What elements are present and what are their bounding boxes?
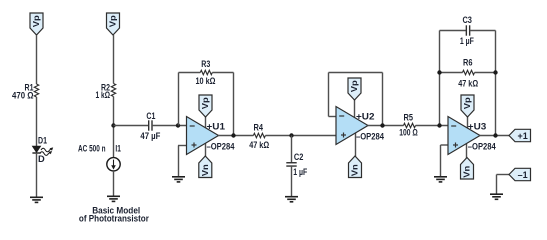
wire U1 noninverting input to ground [178, 145, 187, 147]
power flag Vp (U3) [461, 95, 474, 117]
svg-text:AC 500 n: AC 500 n [78, 144, 106, 154]
wire U3 output to +1 tag [480, 135, 510, 137]
op-amp U3 [448, 117, 480, 155]
svg-text:+U2: +U2 [356, 112, 375, 122]
svg-text:Vn: Vn [463, 166, 472, 178]
stub U1 Vp [205, 111, 207, 131]
svg-text:Vp: Vp [201, 97, 210, 109]
svg-text:D1: D1 [38, 136, 47, 146]
svg-text:47 kΩ: 47 kΩ [458, 78, 478, 88]
svg-text:I1: I1 [115, 144, 121, 154]
wire feedback up from U1 input node [178, 73, 180, 126]
wire C1 to U1 inverting input [152, 125, 187, 127]
wire feedback down to U1 output [233, 73, 235, 136]
svg-text:+U3: +U3 [468, 122, 487, 132]
wire bend down to ground (-1) [496, 175, 498, 195]
svg-text:1 µF: 1 µF [460, 36, 474, 46]
wire C3 right segment [470, 30, 496, 32]
power flag Vp (U1) [199, 95, 212, 117]
wire down to ground U3 [440, 145, 442, 177]
wire R6 left segment [440, 72, 463, 74]
wire U2 feedback into inverting input [329, 116, 337, 118]
junction R6 right [493, 70, 497, 74]
stub U2 Vp [354, 95, 356, 121]
junction U3 output/feedback [493, 133, 497, 137]
svg-text:1 kΩ: 1 kΩ [96, 90, 111, 100]
svg-text:Vn: Vn [201, 164, 210, 176]
svg-text:+1: +1 [517, 131, 527, 141]
resistor R2 [111, 84, 115, 97]
svg-text:R6: R6 [463, 58, 473, 68]
wire down to ground U1 [178, 146, 180, 177]
wire U1 output to R4 [218, 135, 253, 137]
resistor R6 [463, 70, 475, 74]
ground (-1 reference) [490, 194, 503, 199]
resistor R5 [404, 123, 416, 127]
svg-text:R4: R4 [254, 122, 264, 132]
wire U2 output to R5 [368, 125, 404, 127]
svg-text:C1: C1 [146, 111, 155, 121]
svg-text:+U1: +U1 [207, 122, 226, 132]
wire Vp to R2 [113, 35, 115, 84]
power flag Vp (column 2) [107, 13, 120, 35]
power flag Vp (column 1) [30, 13, 43, 35]
light arrows of D1 [40, 147, 53, 155]
wire U2 feedback left down [328, 73, 330, 117]
svg-text:Vn: Vn [351, 164, 360, 176]
wire U2 feedback up [382, 73, 384, 126]
output port -1 [509, 168, 531, 180]
svg-text:10 kΩ: 10 kΩ [196, 76, 216, 86]
wire U3 feedback right vertical [495, 31, 497, 136]
diode D1 [32, 146, 40, 153]
junction U2 output/feedback [380, 123, 384, 127]
svg-text:–OP284: –OP284 [207, 142, 236, 152]
wire D1 to ground [36, 153, 38, 198]
ground (C2) [285, 197, 298, 202]
svg-text:of Phototransistor: of Phototransistor [79, 214, 150, 224]
current source I1 [107, 158, 120, 171]
capacitor C1 [149, 120, 152, 130]
ground (U3 noninverting input) [434, 177, 447, 182]
wire R2 to I1 [113, 97, 115, 159]
svg-text:–OP284: –OP284 [468, 142, 497, 152]
power flag Vn (U2) [349, 156, 362, 178]
junction node R2/C1/I1 [111, 123, 115, 127]
junction node C1/R3/U1 [176, 123, 180, 127]
svg-text:100 Ω: 100 Ω [399, 127, 418, 137]
svg-text:Vp: Vp [463, 97, 472, 109]
capacitor C3 [466, 25, 469, 35]
wire R5 to U3 inverting input [416, 125, 449, 127]
wire R1 to D1 [36, 97, 38, 146]
svg-text:–1: –1 [518, 170, 528, 180]
resistor R3 [200, 70, 212, 74]
wire node to C2 [291, 136, 293, 164]
wire Vp to R1 [36, 35, 38, 84]
svg-text:Vp: Vp [350, 80, 359, 92]
ground (column 1) [30, 197, 43, 202]
op-amp U2 [336, 107, 368, 145]
stub U1 Vn [205, 140, 207, 164]
junction U1 output/feedback [231, 133, 235, 137]
svg-text:R3: R3 [201, 59, 210, 69]
svg-text:R5: R5 [404, 113, 414, 123]
svg-text:470 Ω: 470 Ω [12, 91, 34, 101]
stub U3 Vp [467, 111, 469, 131]
op-amp U1 [187, 117, 219, 155]
wire U3 feedback left vertical [439, 31, 441, 126]
power flag Vp (U2) [348, 78, 361, 100]
power flag Vn (U1) [199, 156, 212, 178]
wire node to C1 [114, 125, 149, 127]
junction U3 inverting input node [437, 123, 441, 127]
ground (column 2) [107, 196, 120, 201]
wire R6 right segment [475, 72, 496, 74]
wire R3 right segment [212, 72, 233, 74]
svg-text:Vp: Vp [109, 15, 118, 27]
svg-text:D: D [38, 154, 45, 164]
output port +1 [509, 129, 531, 141]
svg-text:–OP284: –OP284 [356, 132, 385, 142]
wire I1 to ground [113, 171, 115, 196]
junction R4/C2/U2 [289, 133, 293, 137]
resistor R1 [34, 84, 38, 97]
resistor R4 [253, 133, 265, 137]
wire C2 to ground [291, 166, 293, 197]
wire U2 feedback top [329, 72, 383, 74]
power flag Vn (U3) [461, 158, 474, 180]
svg-text:1 µF: 1 µF [293, 167, 307, 177]
svg-text:47 kΩ: 47 kΩ [249, 140, 269, 150]
stub U3 Vn [466, 140, 468, 166]
wire R3 left segment [179, 72, 201, 74]
svg-text:C2: C2 [294, 152, 304, 162]
junction R6 left [437, 70, 441, 74]
wire C3 left segment [440, 30, 467, 32]
wire -1 tag to bend [497, 174, 510, 176]
wire R4 to U2 noninverting input [265, 135, 336, 137]
stub U2 Vn [355, 131, 357, 157]
svg-text:C3: C3 [462, 15, 472, 25]
wire U3 noninverting input to ground [441, 144, 449, 146]
svg-text:47 µF: 47 µF [140, 131, 160, 141]
capacitor C2 [286, 163, 296, 166]
ground (U1 noninverting input) [172, 177, 185, 182]
svg-text:Vp: Vp [32, 15, 41, 27]
